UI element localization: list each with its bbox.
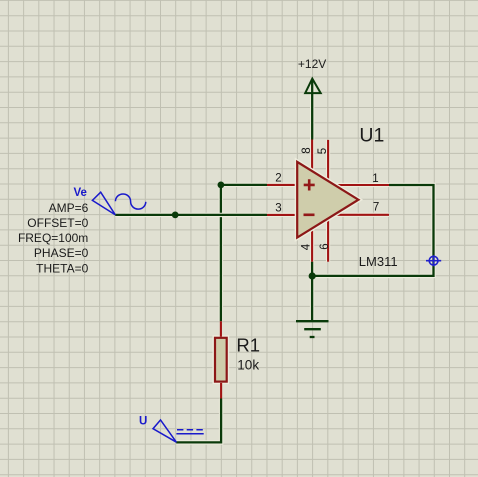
svg-text:8: 8	[301, 147, 313, 153]
ground	[296, 321, 329, 337]
pin 3 stub	[267, 213, 299, 217]
wire Ve to pin 3	[115, 213, 267, 217]
pin 2 stub	[267, 183, 299, 187]
svg-text:5: 5	[317, 148, 329, 154]
op-amp plus input mark	[304, 179, 315, 190]
svg-text:1: 1	[372, 173, 378, 185]
probe U symbol	[153, 420, 204, 442]
junction dot A	[218, 182, 225, 189]
wire vertical branch to R1	[219, 185, 223, 321]
svg-text:10k: 10k	[237, 357, 259, 372]
svg-text:3: 3	[275, 203, 281, 215]
svg-text:U1: U1	[359, 125, 384, 147]
resistor R1 top pin stub	[220, 321, 222, 336]
svg-text:+12V: +12V	[298, 57, 326, 71]
svg-text:U: U	[139, 415, 147, 427]
op-amp minus input mark	[304, 214, 315, 217]
svg-text:6: 6	[319, 243, 331, 249]
op-amp U1 body	[297, 162, 358, 238]
wire to pin 2	[221, 183, 267, 187]
junction dot C	[309, 272, 316, 279]
svg-text:Ve: Ve	[74, 187, 87, 199]
svg-text:PHASE=0: PHASE=0	[34, 246, 89, 260]
svg-text:THETA=0: THETA=0	[36, 261, 88, 275]
svg-text:7: 7	[373, 201, 379, 213]
svg-text:OFFSET=0: OFFSET=0	[27, 216, 88, 230]
wire output pin 1 to ground net	[312, 185, 433, 276]
pin 1 stub	[335, 183, 390, 187]
svg-text:4: 4	[300, 243, 312, 250]
resistor R1	[215, 338, 227, 382]
pin 4 stub	[310, 227, 314, 262]
pin 7 stub	[336, 213, 390, 217]
node crosshair junction	[426, 255, 441, 266]
wire R1 bottom to probe U	[176, 399, 221, 443]
pin 8 stub	[310, 140, 314, 173]
resistor R1 bottom pin stub	[220, 383, 222, 399]
junction dot B	[172, 212, 179, 219]
svg-text:AMP=6: AMP=6	[49, 201, 89, 215]
pin 5 stub	[326, 140, 330, 182]
generator Ve symbol	[92, 192, 145, 215]
svg-text:FREQ=100m: FREQ=100m	[18, 231, 88, 245]
wire +12V supply to pin 8	[310, 80, 314, 140]
svg-text:2: 2	[275, 172, 281, 184]
power symbol +12V	[305, 79, 321, 94]
svg-text:R1: R1	[236, 335, 260, 356]
pin 6 stub	[326, 217, 330, 262]
svg-text:LM311: LM311	[359, 254, 398, 269]
wire pin 4 to ground	[310, 262, 314, 321]
